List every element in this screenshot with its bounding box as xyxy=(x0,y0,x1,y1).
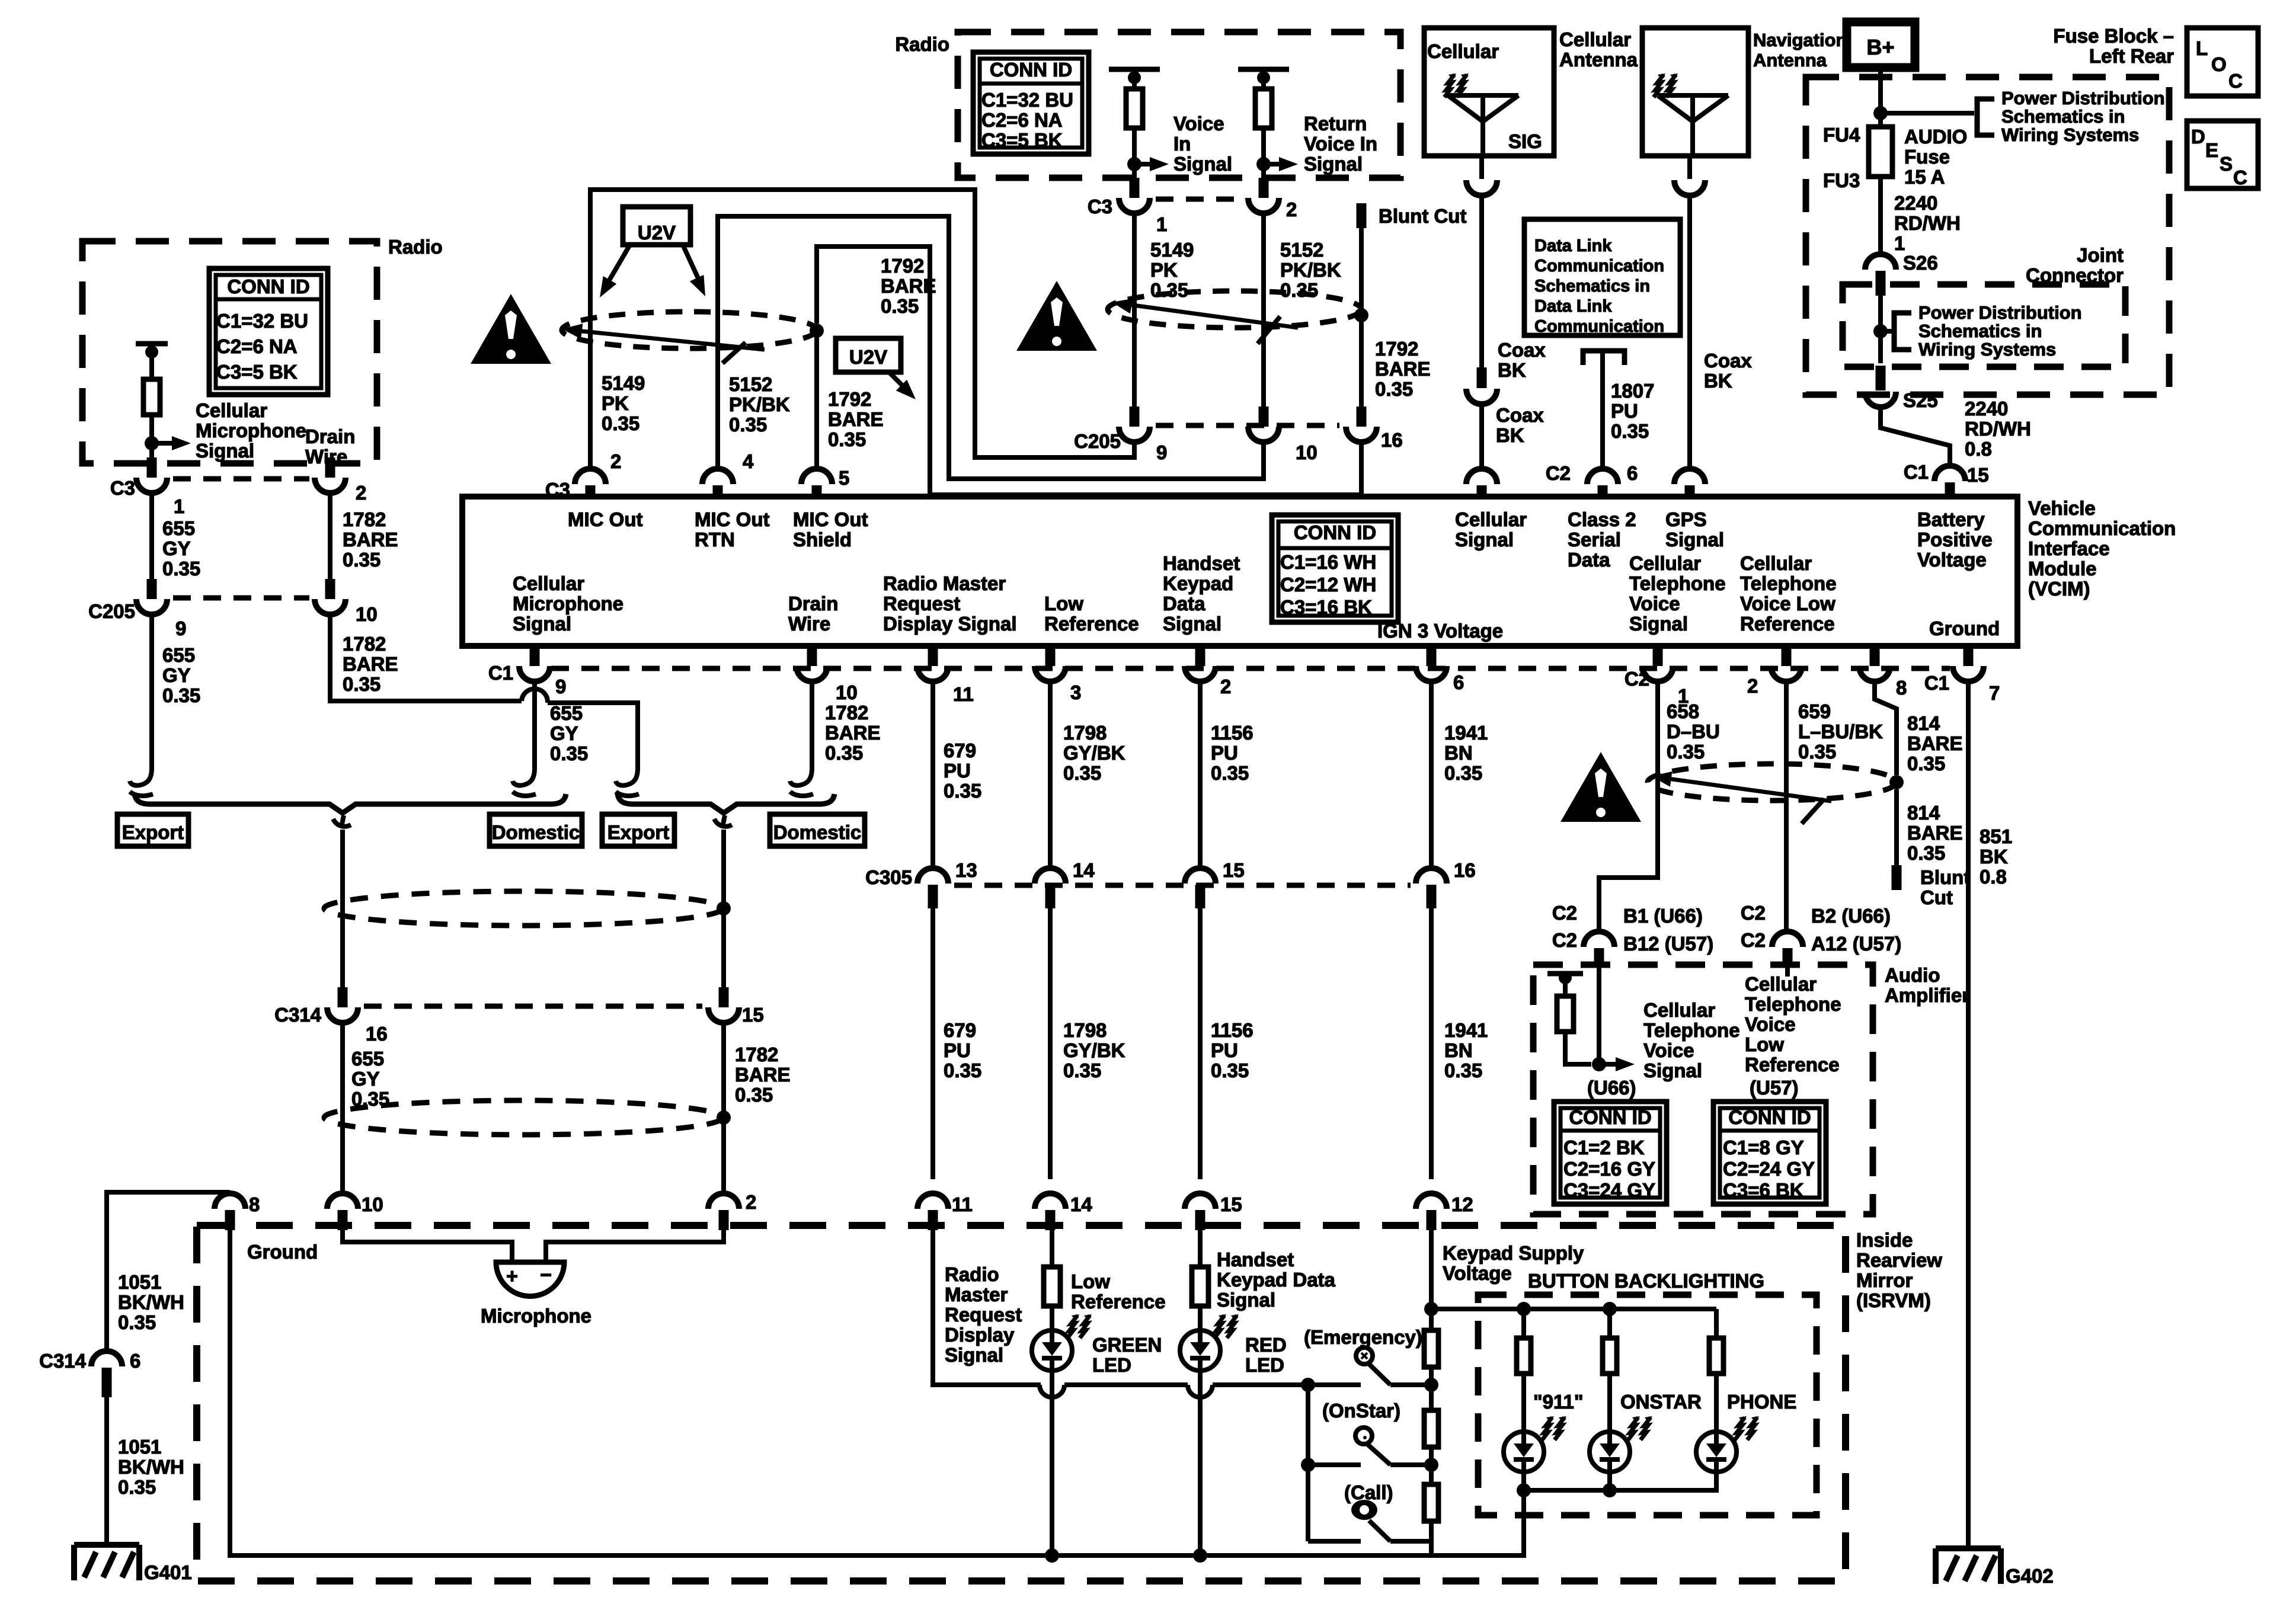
svg-text:Signal: Signal xyxy=(196,440,254,462)
svg-text:(U57): (U57) xyxy=(1750,1077,1799,1099)
svg-text:0.35: 0.35 xyxy=(1907,842,1945,864)
svg-text:MIC Out: MIC Out xyxy=(568,508,642,530)
svg-text:5149: 5149 xyxy=(602,372,645,394)
C205 row dashed line xyxy=(173,596,309,601)
svg-text:15: 15 xyxy=(1967,464,1989,486)
CONN ID table (Radio voice) xyxy=(973,52,1089,154)
svg-text:Data Link: Data Link xyxy=(1534,236,1612,255)
svg-text:A12 (U57): A12 (U57) xyxy=(1811,933,1901,955)
svg-text:LED: LED xyxy=(1092,1354,1131,1376)
node amp voice signal with arrow xyxy=(1592,1057,1606,1071)
CONN ID table (amp U57) xyxy=(1713,1102,1826,1204)
VCIM pin Class 2 Serial Data (C2-6) xyxy=(1587,469,1618,484)
svg-text:Telephone: Telephone xyxy=(1629,572,1726,594)
svg-text:PU: PU xyxy=(1211,1039,1238,1061)
svg-text:659: 659 xyxy=(1798,700,1831,722)
svg-text:1941: 1941 xyxy=(1444,1019,1488,1041)
svg-text:Fuse: Fuse xyxy=(1904,146,1950,168)
svg-text:Communication: Communication xyxy=(1534,317,1664,336)
svg-text:GY/BK: GY/BK xyxy=(1063,742,1125,764)
VCIM pin Cellular Signal xyxy=(1466,469,1497,484)
coax cellular upper xyxy=(1479,196,1484,369)
svg-text:0.35: 0.35 xyxy=(1063,1060,1101,1081)
svg-text:16: 16 xyxy=(1381,429,1403,451)
svg-text:C205: C205 xyxy=(88,600,135,622)
svg-text:0.35: 0.35 xyxy=(118,1476,156,1498)
connector C3 pin 2 (voice) xyxy=(1259,178,1269,198)
svg-text:GY: GY xyxy=(162,537,191,559)
junction dot onstar bus xyxy=(1603,1483,1617,1497)
VCIM pin C1-10 drain wire xyxy=(807,646,817,666)
svg-text:Fuse Block –: Fuse Block – xyxy=(2053,25,2174,47)
svg-text:S25: S25 xyxy=(1903,389,1938,411)
wire B1 into amp xyxy=(1597,966,1601,1064)
junction dot emergency node xyxy=(1424,1378,1438,1392)
wire C1-9 split xyxy=(532,681,537,768)
ISRVM dashed enclosure xyxy=(197,1225,1846,1581)
svg-text:"911": "911" xyxy=(1533,1391,1584,1413)
svg-text:Class 2: Class 2 xyxy=(1568,508,1636,530)
wire onstar resistor to led xyxy=(1607,1374,1612,1432)
resistor (amp input) xyxy=(1557,996,1574,1032)
svg-text:0.35: 0.35 xyxy=(828,428,866,450)
amp input termination bar xyxy=(1547,971,1583,977)
svg-text:Blunt Cut: Blunt Cut xyxy=(1379,205,1466,227)
svg-text:Navigation: Navigation xyxy=(1753,30,1847,50)
svg-text:Request: Request xyxy=(945,1304,1022,1326)
svg-text:Voice In: Voice In xyxy=(1304,133,1377,155)
svg-text:Voice: Voice xyxy=(1745,1013,1796,1035)
splice dot 1792 shield xyxy=(810,324,824,338)
svg-text:C2: C2 xyxy=(1552,929,1577,951)
wire 1792 splice to C205-16 xyxy=(1359,322,1364,408)
svg-text:Signal: Signal xyxy=(1665,529,1724,550)
wire S26 to S25 xyxy=(1878,296,1883,363)
svg-text:PU: PU xyxy=(1611,400,1638,422)
svg-text:Coax: Coax xyxy=(1498,339,1546,361)
svg-text:BARE: BARE xyxy=(1907,732,1963,754)
svg-text:Mirror: Mirror xyxy=(1856,1269,1913,1291)
svg-text:C1: C1 xyxy=(1904,461,1929,483)
Navigation antenna box xyxy=(1642,28,1748,156)
svg-text:+: + xyxy=(506,1265,518,1288)
wire mic negative xyxy=(546,1229,724,1261)
Joint Connector dashed box xyxy=(1843,284,2125,367)
svg-text:C3=5 BK: C3=5 BK xyxy=(216,361,298,383)
resistor voice in xyxy=(1126,89,1143,128)
wire shield splice to MIC Out Shield pin xyxy=(814,331,819,470)
svg-text:Reference: Reference xyxy=(1071,1291,1166,1313)
svg-text:MIC Out: MIC Out xyxy=(793,508,868,530)
svg-text:Audio: Audio xyxy=(1885,964,1940,986)
wire 1782 BARE C314-15 to ISRVM pin 2 xyxy=(721,1023,726,1193)
svg-text:Cut: Cut xyxy=(1920,886,1953,908)
Domestic option box A xyxy=(490,814,582,846)
svg-text:CONN ID: CONN ID xyxy=(990,59,1072,81)
wire resistor to green led xyxy=(1050,1306,1054,1330)
wire pin11 to led return bus xyxy=(933,1230,1041,1385)
Domestic option box B xyxy=(770,814,865,846)
junction dot red led ground xyxy=(1193,1548,1207,1563)
svg-text:0.35: 0.35 xyxy=(1150,279,1188,301)
center hook to C314-15 xyxy=(714,815,732,827)
svg-text:5: 5 xyxy=(839,467,849,489)
cellular antenna connector xyxy=(1479,156,1484,179)
svg-text:C2=6 NA: C2=6 NA xyxy=(216,335,298,357)
connector S26 xyxy=(1865,254,1896,270)
svg-text:1051: 1051 xyxy=(118,1271,161,1293)
VCIM pin C1-11 radio master request xyxy=(928,646,938,666)
svg-text:(VCIM): (VCIM) xyxy=(2028,578,2090,600)
svg-text:655: 655 xyxy=(550,702,583,724)
Data Link Communication reference box xyxy=(1524,219,1680,335)
bolts 911 xyxy=(1542,1417,1552,1440)
wire green led to ground bus xyxy=(1050,1371,1054,1555)
branch to power distribution note 2 xyxy=(1881,329,1894,334)
resistor (call) xyxy=(1424,1484,1438,1521)
svg-text:Cellular: Cellular xyxy=(196,399,267,421)
VCIM module box xyxy=(462,497,2017,646)
VCIM pin C1-7 ground xyxy=(1964,646,1974,666)
wire C305-15 to ISRVM 15 xyxy=(1198,908,1203,1179)
svg-text:679: 679 xyxy=(944,1019,976,1041)
svg-text:B2 (U66): B2 (U66) xyxy=(1811,905,1891,927)
svg-text:0.35: 0.35 xyxy=(1444,1060,1482,1081)
svg-text:GREEN: GREEN xyxy=(1092,1334,1162,1356)
shield slash (mic) xyxy=(722,343,746,363)
svg-text:0.35: 0.35 xyxy=(944,780,981,802)
wire C205-9 loop to VCIM MIC Out xyxy=(590,190,1134,470)
svg-text:8: 8 xyxy=(249,1193,260,1215)
svg-text:B1 (U66): B1 (U66) xyxy=(1623,905,1703,927)
wire onstar led to bus xyxy=(1607,1472,1612,1490)
svg-text:E: E xyxy=(2205,139,2218,161)
svg-text:(ISRVM): (ISRVM) xyxy=(1856,1289,1931,1311)
wire 655 GY C205-9 down to splice brace xyxy=(149,614,154,770)
svg-text:C1=32 BU: C1=32 BU xyxy=(981,89,1073,111)
connector C2 B2/A12 (amp voice low ref) xyxy=(1772,932,1803,947)
LED 911 xyxy=(1504,1432,1544,1472)
svg-text:C3=24 GY: C3=24 GY xyxy=(1563,1179,1655,1201)
switch emergency xyxy=(1356,1347,1373,1364)
wire pin15 to resistor xyxy=(1198,1230,1203,1268)
blunt cut terminator (1792 top) xyxy=(1357,203,1367,228)
wire 1051 to G401 xyxy=(104,1397,109,1544)
Export option box B xyxy=(602,814,674,846)
VCIM bottom dashed pin row xyxy=(551,666,1950,671)
warning triangle (mic circuit) xyxy=(471,294,551,364)
wire switch branch down xyxy=(1306,1385,1310,1541)
svg-text:BK: BK xyxy=(1980,846,2008,868)
svg-text:Rearview: Rearview xyxy=(1856,1249,1942,1271)
svg-text:ONSTAR: ONSTAR xyxy=(1620,1391,1702,1413)
svg-text:Coax: Coax xyxy=(1496,404,1544,426)
Radio (cellular microphone) dashed enclosure xyxy=(82,241,377,463)
svg-text:RED: RED xyxy=(1245,1334,1287,1356)
coax cellular lower xyxy=(1479,404,1484,469)
svg-text:S26: S26 xyxy=(1903,252,1938,274)
svg-text:Domestic: Domestic xyxy=(773,821,862,843)
svg-text:Battery: Battery xyxy=(1917,508,1985,530)
svg-text:Cellular: Cellular xyxy=(1740,552,1812,574)
svg-text:RTN: RTN xyxy=(695,529,735,550)
wire C1-3 to C305-14 xyxy=(1048,681,1053,868)
svg-text:1: 1 xyxy=(174,495,184,517)
VCIM pin MIC Out Shield (5) xyxy=(801,469,832,484)
wire 851 BK ground to G402 xyxy=(1966,681,1971,1548)
svg-text:Wiring Systems: Wiring Systems xyxy=(1918,339,2056,360)
wire amp bar to resistor xyxy=(1563,978,1568,997)
svg-text:Schematics in: Schematics in xyxy=(2001,106,2125,127)
wire C305-14 to ISRVM 14 xyxy=(1048,908,1053,1179)
wire node1 to C3 pin 1 xyxy=(1132,164,1137,179)
connector ISRVM pin 11 (radio master) xyxy=(917,1193,948,1209)
C3 row dashed line xyxy=(173,476,309,482)
svg-text:C: C xyxy=(2228,70,2243,92)
resistor (911 led) xyxy=(1517,1338,1531,1374)
antenna bolts cellular xyxy=(1444,75,1454,97)
svg-text:Voice: Voice xyxy=(1173,113,1224,135)
svg-text:Drain: Drain xyxy=(788,593,838,614)
svg-text:Cellular: Cellular xyxy=(1427,40,1499,62)
svg-text:Low: Low xyxy=(1044,593,1083,614)
svg-text:(Emergency): (Emergency) xyxy=(1304,1326,1422,1348)
svg-text:Signal: Signal xyxy=(1163,613,1221,635)
wire resistor1 to node xyxy=(1132,128,1137,164)
resistor (onstar) xyxy=(1424,1410,1438,1447)
wire ISRVM pin 8 to ground drop xyxy=(107,1192,230,1350)
svg-text:BARE: BARE xyxy=(828,408,884,430)
svg-text:1782: 1782 xyxy=(735,1044,778,1065)
svg-text:0.35: 0.35 xyxy=(881,295,919,317)
wire 1782 BARE C3-2 to C205-10 xyxy=(328,493,332,581)
wire 911 resistor drop xyxy=(1521,1309,1526,1339)
CONN ID table (Radio C1=32 BU) xyxy=(209,268,328,395)
wire resistor to signal node xyxy=(149,415,154,443)
svg-text:0.35: 0.35 xyxy=(343,673,380,695)
U2V callout box 2 xyxy=(836,338,901,372)
wire B2 into amp xyxy=(1785,966,1790,977)
connector C305 pin 13 xyxy=(917,868,948,884)
wire 655 GY C314-16 to ISRVM pin 10 xyxy=(340,1023,345,1193)
microphone bias resistor termination bar xyxy=(136,341,168,347)
svg-text:1798: 1798 xyxy=(1063,722,1107,744)
B+ supply box xyxy=(1847,22,1915,68)
wire 658 D-BU from C2-1 xyxy=(1599,681,1658,932)
svg-text:0.35: 0.35 xyxy=(1063,762,1101,784)
svg-text:AUDIO: AUDIO xyxy=(1904,126,1967,148)
svg-text:0.35: 0.35 xyxy=(118,1311,156,1333)
junction dot below bar xyxy=(145,345,158,359)
svg-text:C205: C205 xyxy=(1074,430,1121,452)
svg-text:Keypad Data: Keypad Data xyxy=(1217,1269,1336,1291)
svg-text:GY/BK: GY/BK xyxy=(1063,1039,1125,1061)
wire C305-16 to ISRVM 12 xyxy=(1429,908,1434,1179)
svg-text:FU3: FU3 xyxy=(1823,169,1860,191)
svg-text:Shield: Shield xyxy=(793,529,852,550)
svg-text:C1: C1 xyxy=(1924,672,1949,694)
node Cellular Microphone Signal with arrow xyxy=(145,436,159,450)
svg-text:4: 4 xyxy=(743,450,754,472)
fuse FU4/FU3 AUDIO 15A xyxy=(1869,127,1892,177)
svg-text:C1=8 GY: C1=8 GY xyxy=(1723,1137,1804,1158)
voice-in termination bar xyxy=(1109,67,1160,72)
dot under bar 1 xyxy=(1128,71,1141,84)
CONN ID table (amp U66) xyxy=(1554,1102,1667,1204)
svg-text:2: 2 xyxy=(1747,675,1758,697)
svg-text:GY: GY xyxy=(162,664,191,686)
junction dot branch onstar xyxy=(1301,1458,1315,1472)
dot under bar 2 xyxy=(1257,71,1270,84)
svg-text:5152: 5152 xyxy=(1280,239,1323,261)
svg-text:In: In xyxy=(1173,133,1191,155)
svg-text:Signal: Signal xyxy=(1629,613,1688,635)
svg-text:L–BU/BK: L–BU/BK xyxy=(1798,721,1883,742)
connector C305 pin 14 xyxy=(1035,868,1066,884)
wire end hook (VCIM 655 GY domestic) xyxy=(513,768,535,786)
svg-text:Microphone: Microphone xyxy=(481,1305,591,1327)
svg-text:C: C xyxy=(2233,167,2247,188)
svg-text:Handset: Handset xyxy=(1163,552,1240,574)
svg-text:Signal: Signal xyxy=(945,1344,1003,1366)
svg-text:0.35: 0.35 xyxy=(729,414,767,436)
svg-text:C1: C1 xyxy=(488,662,513,684)
svg-text:655: 655 xyxy=(162,644,195,666)
svg-text:0.35: 0.35 xyxy=(735,1084,773,1106)
junction dot joint connector xyxy=(1873,324,1888,338)
svg-text:RD/WH: RD/WH xyxy=(1894,212,1961,234)
svg-text:Inside: Inside xyxy=(1856,1229,1913,1251)
VCIM pin MIC Out RTN (4) xyxy=(702,469,733,484)
svg-text:0.35: 0.35 xyxy=(1211,1060,1249,1081)
wire 1792 blunt cut to splice xyxy=(1359,228,1364,309)
svg-text:C1=2 BK: C1=2 BK xyxy=(1563,1137,1645,1158)
warning triangle (voice circuit) xyxy=(1016,281,1097,351)
connector C205 pin 10 (voice) xyxy=(1259,406,1269,427)
svg-text:C2=16 GY: C2=16 GY xyxy=(1563,1158,1655,1180)
svg-text:Voice: Voice xyxy=(1643,1039,1694,1061)
svg-text:Telephone: Telephone xyxy=(1745,993,1841,1015)
wire ISRVM ground bus xyxy=(230,1230,1524,1555)
svg-text:1: 1 xyxy=(1156,213,1167,235)
Fuse Block dashed enclosure xyxy=(1806,77,2169,395)
svg-text:3: 3 xyxy=(1070,681,1081,703)
blunt cut terminator (814) xyxy=(1892,865,1902,890)
node Voice In Signal with arrow xyxy=(1127,157,1141,171)
svg-text:BK: BK xyxy=(1496,424,1524,446)
resistor (onstar led) xyxy=(1603,1338,1617,1374)
U2V arrow left xyxy=(607,245,630,283)
svg-text:1798: 1798 xyxy=(1063,1019,1107,1041)
data link bracket xyxy=(1583,351,1625,365)
wire C205-16 loop to VCIM MIC Out Shield xyxy=(817,247,1361,495)
wire end hook (655 GY export) xyxy=(130,768,152,786)
svg-text:U2V: U2V xyxy=(638,222,676,244)
svg-text:G402: G402 xyxy=(2006,1565,2054,1587)
svg-text:C2=12 WH: C2=12 WH xyxy=(1280,574,1376,596)
svg-text:C1=16 WH: C1=16 WH xyxy=(1280,551,1376,573)
connector C205 pin 9 xyxy=(147,579,157,599)
junction dot 911 bus xyxy=(1517,1483,1531,1497)
svg-text:RD/WH: RD/WH xyxy=(1965,418,2031,440)
svg-text:O: O xyxy=(2211,53,2227,75)
wire onstar led resistor drop xyxy=(1607,1309,1612,1339)
svg-text:814: 814 xyxy=(1907,712,1940,734)
wire 911 resistor to led xyxy=(1521,1374,1526,1432)
svg-text:Display: Display xyxy=(945,1324,1015,1346)
svg-text:MIC Out: MIC Out xyxy=(695,508,769,530)
svg-text:Microphone: Microphone xyxy=(196,420,306,441)
svg-text:C1=32 BU: C1=32 BU xyxy=(216,310,308,332)
wire S25 to VCIM battery pin xyxy=(1881,407,1950,465)
VCIM pin C2-1 voice signal xyxy=(1653,646,1663,666)
connector C3 pin 1 (radio) xyxy=(147,457,157,478)
wire bar to resistor xyxy=(149,352,154,380)
svg-text:Data: Data xyxy=(1163,593,1205,614)
svg-text:14: 14 xyxy=(1070,1193,1092,1215)
svg-text:L: L xyxy=(2196,37,2208,59)
ground G401 xyxy=(74,1542,139,1548)
svg-text:C2: C2 xyxy=(1546,462,1571,484)
svg-text:15 A: 15 A xyxy=(1904,166,1945,188)
wire phone led to bus xyxy=(1714,1472,1719,1490)
svg-text:1807: 1807 xyxy=(1611,380,1654,402)
svg-text:Low: Low xyxy=(1745,1033,1784,1055)
connector ISRVM pin 2 (mic-) xyxy=(708,1193,739,1209)
svg-text:Cellular: Cellular xyxy=(513,572,584,594)
connector ISRVM pin 14 (low ref) xyxy=(1035,1193,1066,1209)
svg-text:Blunt: Blunt xyxy=(1920,866,1970,888)
wire 659 L-BU/BK from C2-2 xyxy=(1784,681,1789,932)
svg-text:BARE: BARE xyxy=(735,1064,791,1086)
svg-text:1156: 1156 xyxy=(1211,1019,1253,1041)
resistor (green led) xyxy=(1044,1267,1060,1306)
svg-text:PU: PU xyxy=(944,1039,971,1061)
svg-text:Signal: Signal xyxy=(1217,1289,1275,1311)
svg-text:Cellular: Cellular xyxy=(1643,999,1715,1021)
svg-text:0.35: 0.35 xyxy=(162,684,200,706)
power distribution bracket (fuse block) xyxy=(1977,99,1994,135)
svg-text:655: 655 xyxy=(162,517,195,539)
svg-text:15: 15 xyxy=(1223,859,1245,881)
svg-text:LED: LED xyxy=(1245,1354,1284,1376)
svg-text:BARE: BARE xyxy=(343,653,398,675)
svg-text:Domestic: Domestic xyxy=(492,821,580,843)
svg-text:Telephone: Telephone xyxy=(1643,1019,1740,1041)
svg-text:PK/BK: PK/BK xyxy=(1280,259,1341,281)
svg-text:C3=16 BK: C3=16 BK xyxy=(1280,596,1372,618)
svg-text:C314: C314 xyxy=(274,1004,322,1026)
wire 5149 PK C3-1 to C205-9 xyxy=(1132,213,1137,408)
svg-text:Export: Export xyxy=(122,821,184,843)
LED red xyxy=(1180,1330,1220,1371)
connector C305 pin 16 xyxy=(1416,868,1447,884)
U2V callout box 1 xyxy=(623,207,690,245)
svg-text:9: 9 xyxy=(1156,441,1167,463)
wire class 2 serial data xyxy=(1600,351,1605,469)
wire C1-11 to C305-13 xyxy=(930,681,935,868)
LED green xyxy=(1032,1330,1072,1371)
svg-text:Microphone: Microphone xyxy=(513,593,623,614)
connector C314 pin 6 xyxy=(91,1351,122,1366)
wire C1-6 to C305-16 xyxy=(1429,681,1434,868)
svg-text:0.35: 0.35 xyxy=(602,412,639,434)
svg-text:PK: PK xyxy=(1150,259,1178,281)
svg-text:5149: 5149 xyxy=(1150,239,1194,261)
Export option box A xyxy=(117,814,188,846)
junction dot onstar node xyxy=(1424,1458,1438,1472)
wire red led to ground bus xyxy=(1198,1371,1203,1555)
